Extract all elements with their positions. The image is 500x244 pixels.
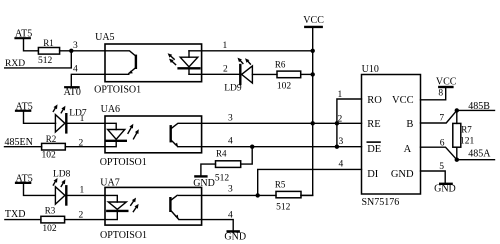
- svg-text:AT0: AT0: [64, 87, 81, 98]
- svg-text:DE: DE: [367, 144, 381, 155]
- svg-text:3: 3: [339, 137, 344, 147]
- svg-text:U10: U10: [362, 64, 379, 75]
- svg-text:OPTOISO1: OPTOISO1: [100, 230, 147, 241]
- svg-text:R6: R6: [275, 59, 286, 69]
- svg-text:UA5: UA5: [95, 32, 114, 43]
- svg-text:AT5: AT5: [16, 102, 33, 113]
- svg-text:102: 102: [42, 151, 57, 161]
- svg-text:DI: DI: [367, 169, 379, 180]
- svg-text:121: 121: [460, 137, 475, 147]
- svg-text:OPTOISO1: OPTOISO1: [100, 157, 147, 168]
- svg-text:512: 512: [276, 203, 291, 213]
- svg-text:485A: 485A: [468, 148, 491, 159]
- svg-text:VCC: VCC: [392, 95, 414, 106]
- svg-text:2: 2: [338, 115, 343, 125]
- svg-text:AT5: AT5: [15, 29, 32, 40]
- svg-text:OPTOISO1: OPTOISO1: [94, 85, 141, 96]
- svg-text:SN75176: SN75176: [362, 197, 400, 208]
- svg-text:485EN: 485EN: [5, 137, 33, 148]
- svg-text:GND: GND: [224, 231, 246, 242]
- svg-text:1: 1: [338, 90, 343, 100]
- svg-text:LD9: LD9: [224, 84, 242, 94]
- svg-text:4: 4: [228, 137, 233, 147]
- svg-text:1: 1: [80, 114, 85, 124]
- svg-text:AT5: AT5: [16, 174, 33, 185]
- svg-text:R3: R3: [45, 206, 56, 216]
- svg-text:R4: R4: [216, 149, 227, 159]
- svg-text:3: 3: [73, 41, 78, 51]
- svg-text:A: A: [404, 144, 412, 155]
- svg-text:TXD: TXD: [5, 209, 26, 220]
- svg-text:1: 1: [80, 186, 85, 196]
- svg-text:2: 2: [223, 65, 228, 75]
- svg-text:102: 102: [277, 82, 292, 92]
- svg-text:3: 3: [228, 185, 233, 195]
- svg-text:4: 4: [228, 211, 233, 221]
- svg-text:4: 4: [73, 64, 78, 74]
- svg-text:LD8: LD8: [53, 170, 71, 180]
- svg-text:6: 6: [440, 138, 445, 148]
- svg-text:RXD: RXD: [5, 59, 25, 69]
- svg-text:7: 7: [439, 114, 444, 124]
- svg-text:512: 512: [215, 174, 230, 184]
- svg-text:R2: R2: [46, 134, 57, 144]
- svg-text:2: 2: [79, 139, 84, 149]
- svg-text:B: B: [406, 119, 413, 130]
- svg-text:GND: GND: [391, 169, 414, 180]
- svg-text:UA7: UA7: [100, 178, 119, 189]
- svg-text:R1: R1: [43, 38, 54, 48]
- svg-text:GND: GND: [434, 184, 456, 195]
- svg-text:RE: RE: [367, 119, 380, 130]
- svg-text:UA6: UA6: [101, 104, 120, 115]
- svg-text:RO: RO: [367, 95, 382, 106]
- svg-text:102: 102: [42, 224, 57, 234]
- svg-text:485B: 485B: [468, 101, 490, 112]
- svg-text:5: 5: [439, 162, 444, 172]
- svg-text:3: 3: [228, 114, 233, 124]
- svg-text:VCC: VCC: [303, 15, 324, 26]
- svg-text:512: 512: [38, 56, 53, 66]
- svg-text:VCC: VCC: [436, 77, 457, 88]
- svg-text:R5: R5: [275, 180, 286, 190]
- svg-text:R7: R7: [461, 124, 472, 134]
- svg-text:GND: GND: [193, 178, 215, 189]
- svg-text:1: 1: [223, 41, 228, 51]
- svg-text:4: 4: [339, 160, 344, 170]
- svg-text:8: 8: [438, 89, 443, 99]
- svg-text:2: 2: [79, 211, 84, 221]
